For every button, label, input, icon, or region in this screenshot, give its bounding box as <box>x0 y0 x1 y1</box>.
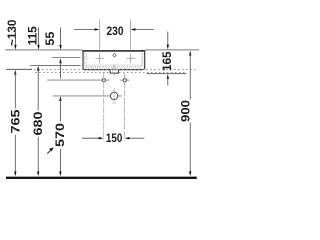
svg-text:570: 570 <box>53 123 67 147</box>
node mounting surface line right <box>147 73 187 75</box>
basin bottom stipple <box>86 65 143 67</box>
mounting hole 1 <box>102 75 105 85</box>
dimension 165 bottom arrow <box>167 74 169 86</box>
svg-text:165: 165 <box>160 51 174 71</box>
wire dashed hidden-edge row 1 <box>34 68 197 70</box>
dimension 150 <box>82 131 144 145</box>
dimension 55 top arrow <box>59 28 61 50</box>
mounting hole 2 <box>120 75 129 85</box>
svg-text:150: 150 <box>106 131 123 145</box>
dimension 115 top arrow <box>37 28 39 50</box>
svg-text:680: 680 <box>31 111 45 135</box>
node center faucet diamond <box>113 54 117 58</box>
node faucet hole crosshair B <box>126 53 135 63</box>
basin outer shell <box>83 50 145 69</box>
node overflow line C <box>52 57 81 59</box>
svg-text:765: 765 <box>8 109 22 133</box>
wire drain vertical centerline <box>113 65 115 78</box>
dimension 900 line with arrows <box>178 51 192 177</box>
node drain centerline <box>53 95 122 97</box>
svg-text:55: 55 <box>43 31 57 45</box>
leader arrow NE for 570 <box>47 147 53 153</box>
node mounting holes centerline <box>47 79 109 81</box>
svg-text:900: 900 <box>178 100 192 122</box>
basin wall stipple left <box>84 53 86 67</box>
basin top edge <box>82 50 145 52</box>
dimension ~130 top arrow <box>14 28 16 50</box>
dimension 680 line with arrows <box>31 66 45 177</box>
drain outlet U channel <box>110 70 118 74</box>
wire dashed hidden-edge row 2 <box>35 71 110 73</box>
node rim-plane line right (L1 ext) <box>145 49 199 51</box>
svg-text:230: 230 <box>107 24 124 38</box>
node rim-plane line left (L1) <box>5 49 82 51</box>
node faucet hole crosshair A <box>95 53 104 63</box>
node under-edge line A <box>6 68 32 70</box>
floor line <box>6 177 197 179</box>
svg-text:115: 115 <box>26 26 40 45</box>
node interior bottom line B <box>30 65 81 67</box>
wire dashed extension line hole 1 <box>103 73 105 141</box>
dimension 165 top arrow <box>167 32 169 50</box>
dimension 55 bottom arrow <box>59 58 61 78</box>
dimension 230 <box>74 19 154 49</box>
svg-text:~130: ~130 <box>5 19 19 46</box>
basin wall stipple right <box>142 53 144 67</box>
drain trap circle <box>110 88 117 104</box>
dimension 570 line with arrows <box>53 96 67 176</box>
wire dashed extension line hole 2 <box>124 73 126 141</box>
basin inner bottom line <box>87 64 141 66</box>
drain inner collar ticks <box>111 68 113 71</box>
dimension 765 line with bottom arrow <box>8 70 22 177</box>
